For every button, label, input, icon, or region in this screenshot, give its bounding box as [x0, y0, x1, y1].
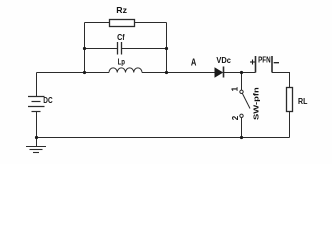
wire top rail left of Rz	[85, 22, 110, 24]
battery DC plates	[28, 97, 45, 112]
node junction at left branch / main rail	[83, 71, 86, 74]
wire main rail left	[37, 72, 110, 74]
wire top rail right of Rz	[135, 22, 167, 24]
wire PFN right to RL	[272, 73, 290, 88]
label - (PFN polarity)	[274, 62, 279, 64]
svg-text:DC: DC	[43, 95, 52, 105]
capacitor Cf	[118, 42, 122, 55]
switch SW-pfn arm	[242, 94, 250, 109]
node junction switch / bottom rail	[240, 136, 243, 139]
label + (PFN polarity)	[250, 60, 255, 65]
battery DC wire top	[36, 73, 38, 97]
svg-text:VDc: VDc	[216, 56, 231, 65]
node junction at right branch / Cf row	[165, 47, 168, 50]
node junction battery / bottom rail	[35, 136, 38, 139]
wire Cf row left	[85, 48, 118, 50]
PFN left terminal bar	[255, 56, 257, 73]
node junction at left branch / Cf row	[83, 47, 86, 50]
switch SW-pfn wire to bottom rail	[241, 118, 243, 138]
wire left branch vertical	[84, 23, 86, 73]
battery DC wire bottom	[36, 112, 38, 147]
svg-text:Rz: Rz	[116, 6, 127, 15]
node junction at switch / main rail	[240, 71, 243, 74]
diode VDc cathode bar	[223, 67, 225, 78]
wire right branch vertical	[166, 23, 168, 73]
node junction at right branch / main rail	[165, 71, 168, 74]
svg-text:PFN: PFN	[258, 56, 271, 65]
svg-text:RL: RL	[298, 96, 307, 106]
svg-text:2: 2	[231, 115, 240, 120]
svg-text:A: A	[191, 58, 197, 69]
ground	[26, 147, 46, 153]
svg-text:Cf: Cf	[117, 32, 125, 42]
wire bottom rail	[37, 137, 290, 139]
diode VDc triangle	[215, 67, 224, 77]
resistor Rz	[110, 20, 135, 27]
switch SW-pfn contact 1	[240, 90, 243, 93]
svg-text:1: 1	[231, 86, 240, 91]
wire RL bottom	[289, 112, 291, 138]
svg-text:SW-pfn: SW-pfn	[252, 87, 261, 120]
inductor Lp	[109, 68, 142, 73]
wire main rail mid	[142, 72, 215, 74]
wire main rail to PFN	[224, 72, 256, 74]
switch SW-pfn contact 2	[240, 114, 243, 117]
PFN right terminal bar	[271, 56, 273, 73]
switch SW-pfn wire from rail	[241, 73, 243, 91]
svg-text:Lp: Lp	[118, 57, 125, 67]
wire Cf row right	[122, 48, 167, 50]
resistor RL	[287, 88, 293, 112]
